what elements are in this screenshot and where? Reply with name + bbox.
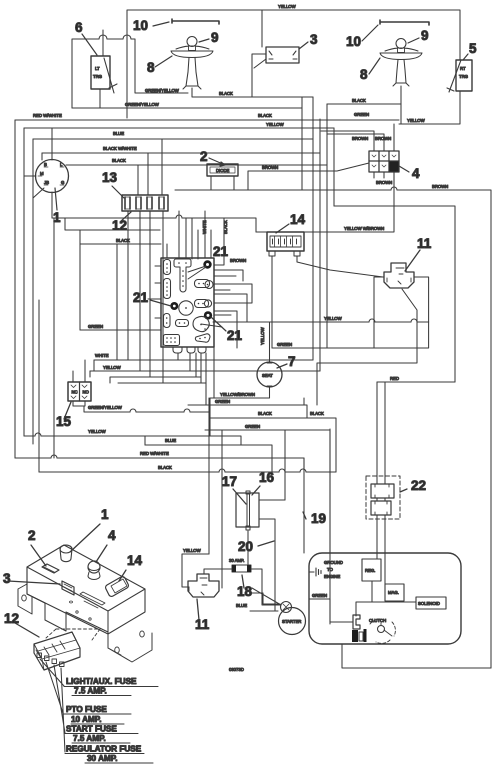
wire black 470 xyxy=(39,471,336,473)
svg-text:3: 3 xyxy=(3,571,11,586)
wire feeds into board top xyxy=(167,211,224,265)
console left foot xyxy=(18,584,32,614)
wire to lower 11 xyxy=(182,554,209,587)
svg-text:YELLOW/BROWN: YELLOW/BROWN xyxy=(220,392,255,397)
circuit board module xyxy=(161,258,214,347)
wire to 455 vertical xyxy=(334,206,455,382)
svg-text:12: 12 xyxy=(112,218,127,233)
svg-text:MAG.: MAG. xyxy=(388,590,399,595)
wire BROWN to connector 4 xyxy=(248,163,369,190)
relay 3 xyxy=(266,47,299,63)
svg-text:GREEN: GREEN xyxy=(277,342,292,347)
svg-text:7: 7 xyxy=(288,354,296,369)
rocker switch 3 xyxy=(62,581,74,595)
svg-text:BROWN: BROWN xyxy=(376,180,392,185)
wire ignition connections xyxy=(24,128,52,218)
connector 4 xyxy=(369,151,399,172)
starter xyxy=(279,608,306,635)
svg-text:BLACK: BLACK xyxy=(158,465,172,470)
board lower slot xyxy=(176,320,189,327)
wire solenoid xyxy=(356,581,416,616)
seat switch 7 xyxy=(257,362,282,387)
fuse block 13 xyxy=(122,195,168,211)
wire green/yellow 409 xyxy=(84,406,209,412)
wire drops below 470 xyxy=(209,398,304,588)
svg-text:GREEN/YELLOW: GREEN/YELLOW xyxy=(88,405,123,410)
wire left mid verticals xyxy=(65,218,161,330)
wire 11 plug diagonal xyxy=(317,289,417,405)
wire RT TRG bottom to yellow xyxy=(399,91,460,124)
wire feeds board left xyxy=(80,266,161,330)
wire yellow line mid xyxy=(213,321,429,323)
svg-text:14: 14 xyxy=(290,212,306,227)
svg-text:BLACK: BLACK xyxy=(219,91,233,96)
svg-text:PTO FUSE: PTO FUSE xyxy=(66,705,107,714)
svg-text:03073D: 03073D xyxy=(229,667,244,672)
wire red w/white 458 xyxy=(15,458,304,470)
svg-text:11: 11 xyxy=(417,236,432,251)
svg-text:BROWN: BROWN xyxy=(352,136,368,141)
svg-text:2: 2 xyxy=(28,528,36,543)
svg-text:YELLOW: YELLOW xyxy=(88,429,107,434)
svg-text:LT: LT xyxy=(95,66,100,71)
svg-text:BLACK: BLACK xyxy=(258,113,272,118)
svg-text:BROWN: BROWN xyxy=(262,165,278,170)
connector plug 11 lower xyxy=(188,574,219,597)
wire BLACK right lamp xyxy=(327,103,401,105)
svg-text:GREEN: GREEN xyxy=(245,424,260,429)
wire relay3 to top xyxy=(252,10,266,97)
svg-text:1: 1 xyxy=(101,507,109,522)
wire diode legs xyxy=(211,176,234,190)
wire black 418 xyxy=(209,418,336,472)
svg-text:BLUE: BLUE xyxy=(165,438,176,443)
board slot left 1 xyxy=(164,260,171,275)
svg-text:M: M xyxy=(40,171,44,176)
svg-text:18: 18 xyxy=(237,584,253,599)
svg-text:21: 21 xyxy=(133,290,149,305)
svg-text:10: 10 xyxy=(346,34,361,49)
starter small terminal xyxy=(281,602,292,613)
wire blue 444 xyxy=(145,445,272,458)
fuse holder wires to labels xyxy=(40,659,65,752)
wire green mid xyxy=(272,322,429,348)
knob 4 xyxy=(88,561,100,573)
svg-text:ENGINE: ENGINE xyxy=(324,574,340,579)
svg-text:GREEN/YELLOW: GREEN/YELLOW xyxy=(145,88,180,93)
wire long brown right xyxy=(175,190,491,668)
board screw mid left xyxy=(170,302,178,310)
svg-text:YELLOW: YELLOW xyxy=(266,122,285,127)
svg-text:YELLOW: YELLOW xyxy=(278,4,297,9)
svg-text:REGULATOR FUSE: REGULATOR FUSE xyxy=(66,745,142,754)
svg-text:BLACK W/WHITE: BLACK W/WHITE xyxy=(103,146,137,151)
magneto box xyxy=(385,584,404,601)
svg-text:YELLOW: YELLOW xyxy=(183,548,202,553)
svg-text:3: 3 xyxy=(310,32,318,47)
svg-text:WHITE: WHITE xyxy=(95,353,109,358)
svg-text:5: 5 xyxy=(469,41,477,56)
ground to engine symbol xyxy=(309,568,321,576)
svg-text:JB: JB xyxy=(44,180,49,185)
engine outline xyxy=(309,553,461,644)
board slot right B xyxy=(195,300,209,308)
board slot left 3 xyxy=(164,314,171,328)
console right foot xyxy=(108,633,152,662)
svg-text:BLACK: BLACK xyxy=(112,158,126,163)
svg-text:4: 4 xyxy=(412,166,420,181)
svg-text:BLACK: BLACK xyxy=(352,98,366,103)
wire fuse block top pins xyxy=(138,139,162,195)
wire BLACK W/WHITE line xyxy=(42,152,320,154)
board T connector xyxy=(174,259,191,292)
relay 15 xyxy=(68,382,91,401)
regulator box xyxy=(362,559,381,581)
clutch connector black xyxy=(353,615,360,629)
svg-text:STARTER: STARTER xyxy=(282,619,301,624)
svg-text:8: 8 xyxy=(147,60,155,75)
wire seat top yellow vertical xyxy=(269,322,271,362)
board slot left 2 xyxy=(164,279,171,299)
svg-text:LIGHT/AUX. FUSE: LIGHT/AUX. FUSE xyxy=(66,677,137,686)
svg-text:B: B xyxy=(44,162,47,167)
svg-text:14: 14 xyxy=(127,553,143,568)
svg-text:GREEN: GREEN xyxy=(312,593,327,598)
svg-text:GREEN/YELLOW: GREEN/YELLOW xyxy=(125,102,160,107)
vertical bus wires center xyxy=(302,97,334,371)
svg-text:13: 13 xyxy=(102,170,118,185)
fuse holder 12 3d xyxy=(34,632,80,670)
bulb 9 left xyxy=(187,37,197,47)
board bottom tabs xyxy=(173,347,206,353)
wire yellow w/brown xyxy=(256,172,394,232)
svg-text:10 AMP.: 10 AMP. xyxy=(71,715,102,724)
svg-text:GREEN: GREEN xyxy=(215,399,230,404)
svg-text:SOLENOID: SOLENOID xyxy=(418,601,440,606)
wire YELLOW line xyxy=(90,370,320,372)
svg-text:REG.: REG. xyxy=(365,568,375,573)
speed slot xyxy=(80,592,105,605)
svg-text:GREEN: GREEN xyxy=(354,112,369,117)
svg-text:DIODE: DIODE xyxy=(216,168,230,173)
wire console to starter diagonal xyxy=(252,588,281,605)
svg-text:BROWN: BROWN xyxy=(230,258,246,263)
svg-text:7.5 AMP.: 7.5 AMP. xyxy=(73,734,106,743)
solenoid box xyxy=(416,597,446,609)
svg-text:TRG: TRG xyxy=(459,74,469,79)
wire 22 to engine xyxy=(377,498,385,584)
wire feeds board right xyxy=(214,270,252,348)
wire green 405 xyxy=(188,405,307,418)
board bottom-right slot xyxy=(195,334,210,342)
svg-text:8: 8 xyxy=(360,67,368,82)
wire right lamp stem down xyxy=(400,86,402,124)
ignition switch 1 xyxy=(36,160,69,193)
svg-text:7.5 AMP.: 7.5 AMP. xyxy=(74,687,107,696)
wire black from left lamp stem xyxy=(192,88,313,118)
wire connector4 legs xyxy=(321,124,394,187)
svg-text:BROWN: BROWN xyxy=(432,184,448,189)
svg-text:RT: RT xyxy=(460,66,466,71)
connector 14 xyxy=(267,232,304,251)
wire connector14 legs xyxy=(272,256,383,348)
wire green 429 xyxy=(205,430,330,624)
svg-text:21: 21 xyxy=(213,244,229,259)
svg-text:START FUSE: START FUSE xyxy=(66,725,117,734)
wire left long verticals xyxy=(15,120,54,472)
svg-text:RED W/WHITE: RED W/WHITE xyxy=(33,113,62,118)
wire 16 right side xyxy=(248,500,285,611)
console small holes xyxy=(76,611,78,613)
svg-text:YELLOW: YELLOW xyxy=(103,365,122,370)
svg-text:RED W/WHITE: RED W/WHITE xyxy=(140,451,169,456)
wire fuse block bottom pins xyxy=(117,211,163,383)
svg-text:30 AMP.: 30 AMP. xyxy=(87,754,118,763)
wire box around 11 xyxy=(374,277,429,348)
svg-text:4: 4 xyxy=(108,528,116,543)
svg-text:BROWN: BROWN xyxy=(375,136,391,141)
svg-text:RED: RED xyxy=(390,376,399,381)
board center circle xyxy=(179,301,193,315)
wire clutch bottom loop xyxy=(342,644,491,668)
svg-text:30 AMP.: 30 AMP. xyxy=(229,558,244,563)
bulb 9 right xyxy=(396,39,406,49)
headlight 8 left xyxy=(171,46,213,57)
board slot right A xyxy=(195,280,210,288)
wire relay15 top xyxy=(73,360,85,382)
diode 2 xyxy=(207,164,238,176)
board blob lower right xyxy=(193,316,209,331)
wire fuse18 right xyxy=(251,569,281,605)
svg-text:BLUE: BLUE xyxy=(236,603,247,608)
svg-text:TRG: TRG xyxy=(93,74,103,79)
svg-text:17: 17 xyxy=(222,474,237,489)
wire fuse18 left xyxy=(204,569,232,574)
wire 22 feeders xyxy=(377,382,385,484)
socket 14 xyxy=(106,577,129,597)
svg-text:10: 10 xyxy=(133,18,148,33)
wire BLUE line xyxy=(33,138,313,140)
fuse 18 xyxy=(232,565,251,572)
wire green inside engine xyxy=(309,599,353,622)
relay module 16 xyxy=(236,493,259,527)
wire yellow 436 xyxy=(24,436,241,445)
wire WHITE line xyxy=(94,359,313,361)
wire YELLOW long line xyxy=(24,127,334,129)
wire red line xyxy=(377,381,455,383)
console body 3d xyxy=(27,545,145,634)
svg-text:6: 6 xyxy=(75,20,83,35)
svg-text:SEAT: SEAT xyxy=(262,373,273,378)
board screw lower right xyxy=(204,311,212,319)
wire green/yellow lower xyxy=(72,107,302,109)
turn signal 5 (RT TRG) xyxy=(456,60,472,91)
svg-text:21: 21 xyxy=(227,328,243,343)
svg-text:19: 19 xyxy=(311,511,326,526)
wire engine top feeds xyxy=(329,429,331,553)
wire left lamp box xyxy=(72,39,188,108)
wire RED W/WHITE / BLACK / GREEN long line xyxy=(15,119,399,121)
svg-text:16: 16 xyxy=(259,470,275,485)
svg-text:15: 15 xyxy=(56,414,72,429)
light bar 10 left xyxy=(172,19,219,24)
svg-text:YELLOW: YELLOW xyxy=(324,316,343,321)
board screw top right xyxy=(203,260,211,268)
svg-text:YELLOW: YELLOW xyxy=(260,326,265,345)
svg-text:NO: NO xyxy=(83,390,90,395)
svg-text:9: 9 xyxy=(421,28,429,43)
wire YELLOW top run xyxy=(127,10,460,118)
svg-text:2: 2 xyxy=(200,149,208,164)
svg-text:YELLOW W/BROWN: YELLOW W/BROWN xyxy=(344,226,384,231)
regulator connector 22 xyxy=(366,476,400,519)
svg-text:BLACK: BLACK xyxy=(310,411,324,416)
switch slot 2 xyxy=(42,564,59,573)
wire relay15 bottom U xyxy=(73,401,85,406)
svg-text:NC: NC xyxy=(72,390,78,395)
svg-text:BLUE: BLUE xyxy=(113,131,124,136)
svg-text:GREEN: GREEN xyxy=(88,324,103,329)
lamp switch 6 (LT TRG) xyxy=(91,56,110,89)
light bar 10 right xyxy=(380,20,429,25)
dashed connection console to fuse holder xyxy=(46,629,100,640)
key switch cylinder 1 xyxy=(60,545,72,562)
wire seat bottom xyxy=(210,387,304,436)
svg-text:YELLOW: YELLOW xyxy=(407,118,426,123)
fuse strip 17 xyxy=(246,491,250,530)
connector plug 11 upper xyxy=(384,263,414,288)
svg-text:9: 9 xyxy=(211,30,219,45)
svg-text:BLACK: BLACK xyxy=(258,411,272,416)
svg-text:TO: TO xyxy=(327,567,333,572)
svg-text:20: 20 xyxy=(238,539,253,554)
wire ignition bottom run xyxy=(52,218,256,232)
headlight 8 right xyxy=(380,48,422,59)
wire left feeds to starter xyxy=(250,593,280,611)
svg-text:G: G xyxy=(61,180,65,185)
svg-text:11: 11 xyxy=(195,617,210,632)
wire BLACK line xyxy=(66,164,327,166)
wire lower pair xyxy=(90,360,206,383)
svg-text:BLACK: BLACK xyxy=(116,238,130,243)
board bottom-left connector xyxy=(164,335,180,346)
wire board bottom drops xyxy=(178,347,214,405)
svg-text:22: 22 xyxy=(411,478,426,493)
svg-text:GROUND: GROUND xyxy=(324,560,343,565)
